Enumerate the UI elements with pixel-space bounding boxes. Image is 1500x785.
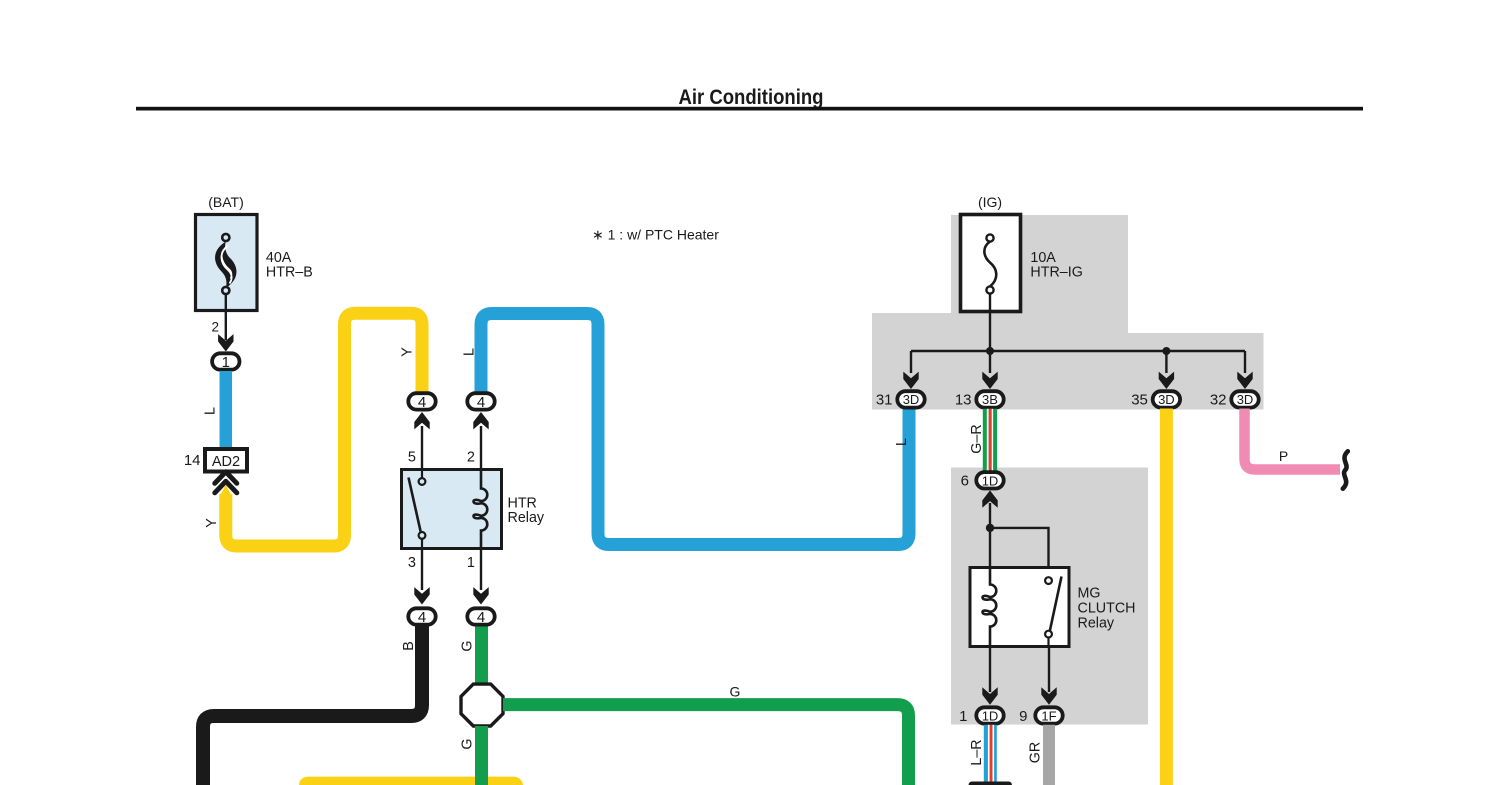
svg-text:1D: 1D xyxy=(982,709,999,724)
svg-text:∗ 1 : w/ PTC Heater: ∗ 1 : w/ PTC Heater xyxy=(592,227,719,243)
switch blade xyxy=(1050,577,1062,632)
wire P (pink) from 3D(32) xyxy=(1245,409,1341,470)
arrow down into 1D(1) xyxy=(982,687,997,704)
svg-text:32: 32 xyxy=(1210,392,1227,409)
continuation squiggle xyxy=(1343,451,1348,488)
wire G (green) right from octagon xyxy=(503,705,909,785)
svg-text:40A: 40A xyxy=(266,250,292,266)
svg-text:3: 3 xyxy=(408,555,416,571)
arrow into 3D(35) xyxy=(1159,372,1174,389)
wire Y (yellow) long path from AD2 to HTR relay pin5 connector xyxy=(226,313,422,546)
svg-text:3D: 3D xyxy=(1158,392,1175,407)
svg-text:31: 31 xyxy=(876,392,893,409)
shield/double chevron below AD2 xyxy=(215,472,237,493)
yellow wire tip under chevron xyxy=(220,485,233,498)
wire G-R (green/red striped) from 3B(13) to 1D(6) xyxy=(983,409,997,472)
fuse symbol xyxy=(984,234,996,293)
stub wire to 3B(13) xyxy=(989,351,991,373)
stub wire to 3D(31) xyxy=(910,351,912,373)
HTR relay box xyxy=(402,470,502,549)
svg-text:G: G xyxy=(730,684,741,700)
svg-text:9: 9 xyxy=(1019,708,1027,725)
wire from switch to 1F(9) xyxy=(1048,647,1050,693)
connector oval 1D (1) xyxy=(976,707,1003,723)
svg-text:GR: GR xyxy=(1028,742,1044,763)
svg-text:1D: 1D xyxy=(982,473,999,488)
svg-text:14: 14 xyxy=(184,452,201,469)
pin 1 wire xyxy=(480,549,482,591)
svg-text:13: 13 xyxy=(955,392,972,409)
arrow into 3D(31) xyxy=(903,372,918,389)
connector oval 3D (35) xyxy=(1153,391,1180,407)
branch wire to switch xyxy=(990,528,1049,577)
wire L-R (blue/red striped) from 1D(1) xyxy=(984,725,997,782)
svg-text:G–R: G–R xyxy=(969,424,985,453)
connector oval 4 (pin5 top) xyxy=(408,393,435,409)
yellow wire bar bottom xyxy=(299,777,523,785)
wire pin2 xyxy=(480,426,482,470)
svg-text:1: 1 xyxy=(467,555,475,571)
connector oval 1D (6) xyxy=(976,472,1003,488)
distribution bus line xyxy=(911,350,1245,352)
svg-text:(IG): (IG) xyxy=(978,194,1002,210)
fusible link 40A HTR-B box xyxy=(196,215,258,311)
svg-text:4: 4 xyxy=(477,394,485,411)
wire L (blue) from connector 1 to AD2 xyxy=(220,371,233,450)
svg-text:CLUTCH: CLUTCH xyxy=(1078,601,1136,617)
connector oval 1 xyxy=(212,353,239,369)
wire GR (gray) from 1F(9) xyxy=(1043,725,1055,785)
arrow down into oval 4 pin3 xyxy=(414,587,429,604)
arrow into 3D(32) xyxy=(1237,372,1252,389)
wire pin5 xyxy=(421,426,423,470)
arrow up into oval 4 pin2 xyxy=(473,412,488,429)
wire from fuse to connector 1 xyxy=(225,294,227,340)
svg-text:35: 35 xyxy=(1131,392,1148,409)
svg-text:Y: Y xyxy=(400,347,416,357)
svg-text:P: P xyxy=(1279,448,1288,464)
svg-text:Air Conditioning: Air Conditioning xyxy=(679,86,824,109)
arrow down into 1F(9) xyxy=(1041,687,1056,704)
connector oval 1F (9) xyxy=(1035,707,1062,723)
svg-text:1: 1 xyxy=(222,354,230,371)
stub wire to 3D(32) xyxy=(1244,351,1246,373)
svg-text:3B: 3B xyxy=(982,392,998,407)
wire from coil to 1D(1) xyxy=(989,647,991,693)
fusible link symbol xyxy=(215,234,236,294)
gray background block behind MG CLUTCH relay xyxy=(951,468,1148,725)
junction dot xyxy=(986,524,994,532)
svg-text:MG: MG xyxy=(1078,586,1101,602)
connector oval 3D (32) xyxy=(1231,391,1258,407)
svg-text:3D: 3D xyxy=(903,392,920,407)
arrow into 3B(13) xyxy=(982,372,997,389)
svg-text:2: 2 xyxy=(467,450,475,466)
arrow up into oval 4 pin5 xyxy=(414,412,429,429)
svg-text:2: 2 xyxy=(211,320,219,335)
switch contacts inside relay xyxy=(421,470,423,479)
svg-text:G: G xyxy=(459,640,475,651)
arrow down into oval 4 pin1 xyxy=(473,587,488,604)
svg-text:5: 5 xyxy=(408,450,416,466)
svg-text:1: 1 xyxy=(959,708,967,725)
svg-text:Relay: Relay xyxy=(508,510,545,526)
svg-text:AD2: AD2 xyxy=(212,454,240,470)
pin 3 wire xyxy=(421,549,423,591)
svg-text:Relay: Relay xyxy=(1078,616,1115,632)
svg-text:L: L xyxy=(894,438,910,446)
wire G (green) below octagon xyxy=(475,726,488,785)
connector oval 4 (pin1 bottom) xyxy=(467,608,494,624)
svg-text:L–R: L–R xyxy=(969,739,985,765)
gray background block behind IG fuse and 3D/3B connector band xyxy=(872,215,1264,410)
wire G (green) from oval 4 pin1 to octagon xyxy=(475,627,488,685)
relay coil xyxy=(983,568,997,647)
svg-text:1F: 1F xyxy=(1041,709,1056,724)
svg-text:HTR–IG: HTR–IG xyxy=(1030,265,1082,281)
wire from IG fuse to distribution xyxy=(989,294,991,352)
svg-text:4: 4 xyxy=(418,394,426,411)
relay coil xyxy=(474,470,488,549)
svg-text:Y: Y xyxy=(204,518,220,528)
svg-text:4: 4 xyxy=(418,609,426,626)
junction dot above 35 xyxy=(1162,347,1170,355)
connector oval 3B (13) xyxy=(976,391,1003,407)
connector oval 3D (31) xyxy=(897,391,924,407)
wire L (blue) long path from HTR relay pin2 connector to 3D(31) xyxy=(481,314,909,545)
svg-text:4: 4 xyxy=(477,609,485,626)
connector oval 4 (pin2 top) xyxy=(467,393,494,409)
svg-text:B: B xyxy=(401,641,417,651)
wire from 1D(6) to coil xyxy=(989,503,991,570)
switch blade xyxy=(409,478,421,533)
connector oval 4 (pin3 bottom) xyxy=(408,608,435,624)
svg-text:L: L xyxy=(203,407,219,415)
junction dot at IG feed xyxy=(986,347,994,355)
svg-text:HTR–B: HTR–B xyxy=(266,265,313,281)
svg-text:6: 6 xyxy=(961,473,969,490)
svg-text:G: G xyxy=(460,738,476,749)
arrow up out of 1D(6) xyxy=(982,490,997,507)
wire Y (yellow) from 3D(35) to bottom xyxy=(1160,409,1173,785)
MG CLUTCH relay box xyxy=(970,568,1069,647)
stub wire to 3D(35) xyxy=(1165,351,1167,373)
svg-text:10A: 10A xyxy=(1030,250,1056,266)
svg-text:(BAT): (BAT) xyxy=(208,194,244,210)
fuse 10A HTR-IG box xyxy=(961,215,1021,312)
octagon junction xyxy=(461,684,503,726)
arrow into connector 1 xyxy=(218,334,233,351)
svg-text:L: L xyxy=(462,348,478,356)
compressor component top xyxy=(969,782,1013,785)
title underline rule xyxy=(136,107,1363,111)
wire B (black) from oval 4 pin3 to bottom left xyxy=(203,627,422,785)
svg-text:3D: 3D xyxy=(1237,392,1254,407)
switch contacts xyxy=(1045,577,1052,584)
junction connector AD2 xyxy=(205,449,247,472)
